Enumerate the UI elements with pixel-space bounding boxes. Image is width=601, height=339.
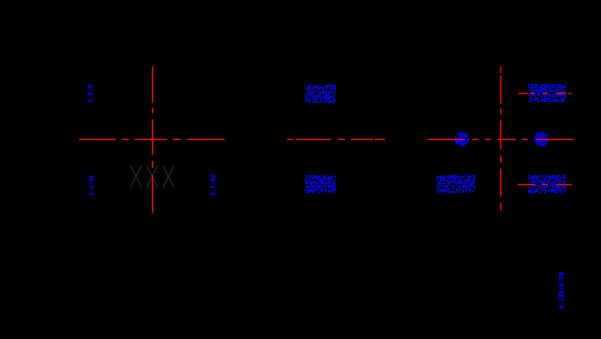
- svg-text:2.8:45: 2.8:45: [88, 175, 95, 196]
- svg-text:3.1-62: 3.1-62: [210, 174, 217, 196]
- svg-text:1.6:5: 1.6:5: [88, 84, 95, 102]
- svg-text:0.125:8.50: 0.125:8.50: [559, 272, 566, 309]
